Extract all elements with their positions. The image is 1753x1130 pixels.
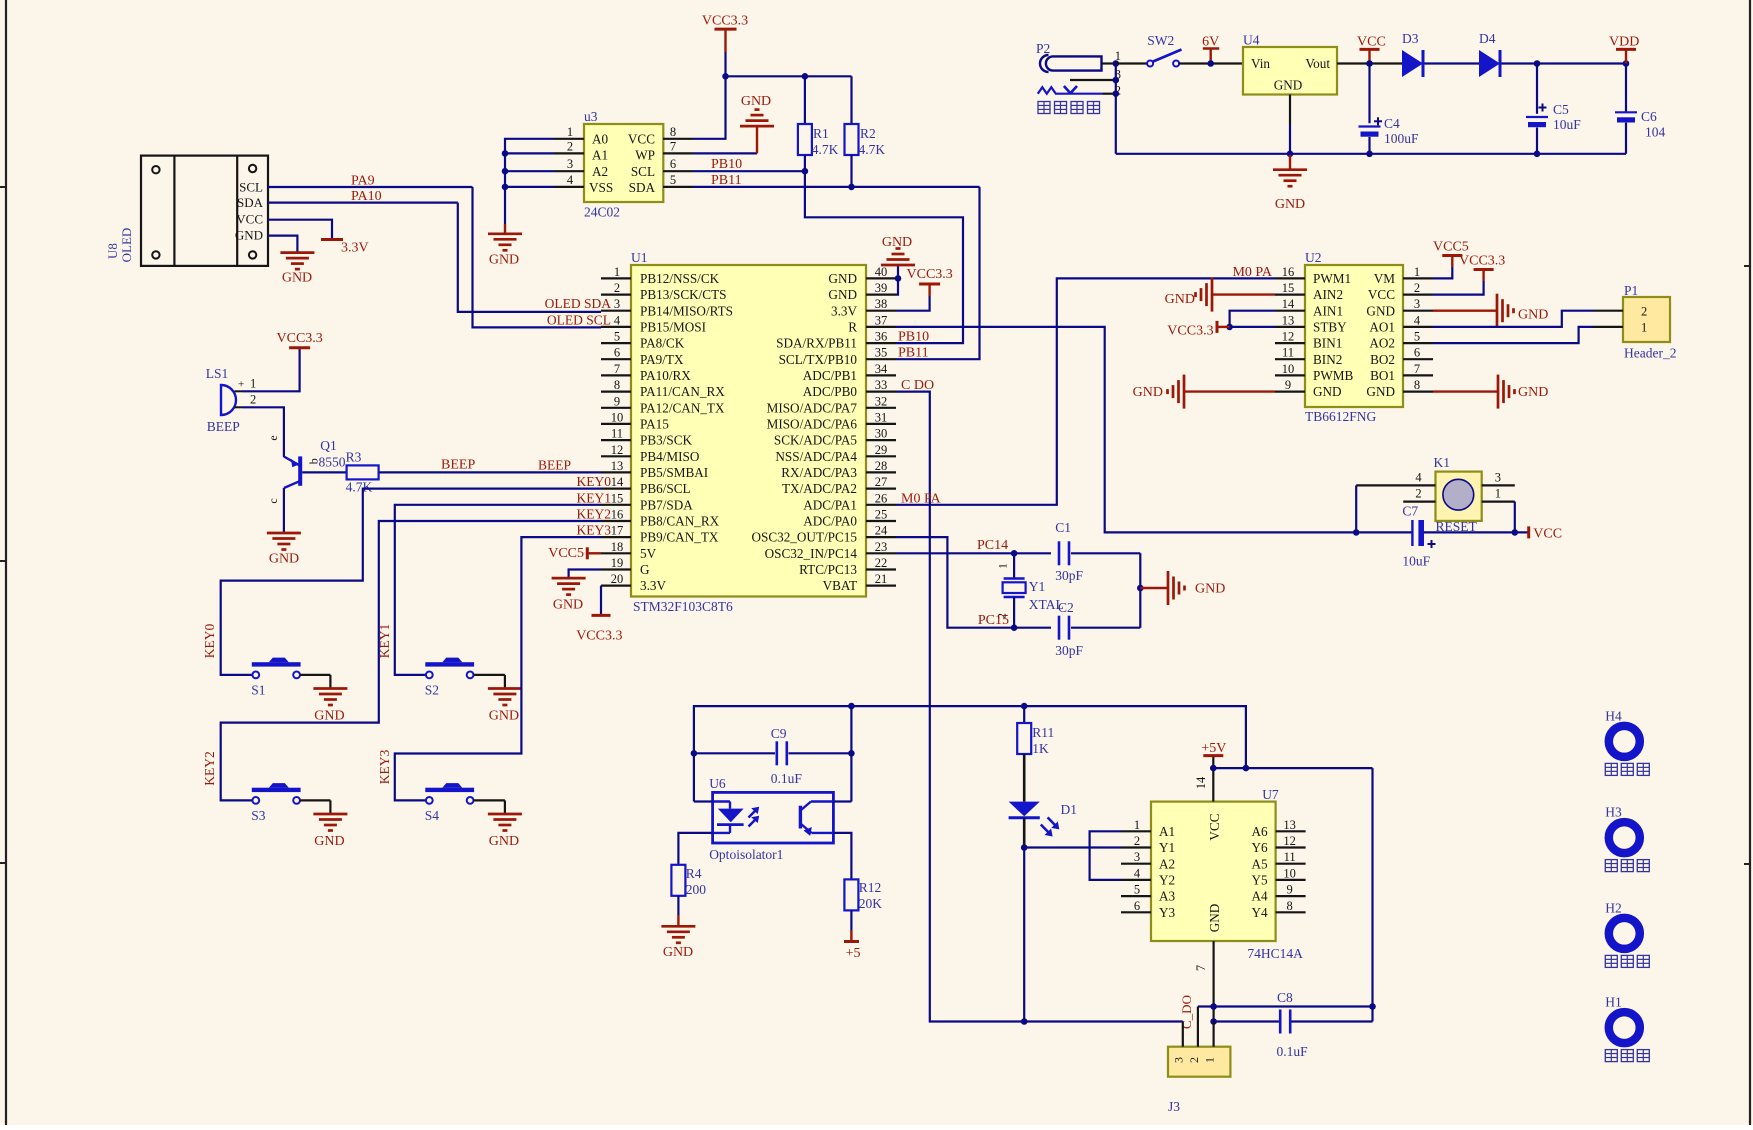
net label KEY2 (at U1): [577, 507, 612, 522]
label 24C02: [584, 205, 620, 220]
buzzer LS1: [221, 377, 256, 416]
label U8 designator (rotated OLED / U8): [105, 228, 134, 263]
wire KEY2 net: [221, 521, 601, 800]
svg-text:C8: C8: [1277, 990, 1293, 1005]
pin 5 u3 SDA: [663, 173, 693, 187]
pin 25 U1: [866, 508, 896, 522]
wire U2 VCC to VCC3.3: [1433, 281, 1484, 295]
switch S3: [252, 783, 301, 804]
label 74HC14A: [1247, 946, 1303, 961]
pin 6 u3 SCL: [663, 157, 693, 171]
wire M0_PA U1 pin26 to U2 pin16: [896, 278, 1275, 504]
svg-text:PB11: PB11: [711, 173, 742, 188]
pin 3 K1: [1482, 470, 1515, 485]
pin 14 U2: [1275, 297, 1305, 311]
svg-text:8: 8: [670, 125, 676, 139]
svg-text:14: 14: [611, 475, 624, 489]
svg-text:15: 15: [611, 491, 624, 505]
net label KEY2 (rotated): [202, 751, 217, 786]
pin 5 U1: [601, 330, 631, 344]
svg-text:4.7K: 4.7K: [859, 142, 886, 157]
svg-text:U6: U6: [709, 776, 726, 791]
svg-text:5: 5: [670, 173, 676, 187]
junction D1 cathode / U7 input: [1021, 844, 1028, 851]
svg-text:GND: GND: [1518, 385, 1548, 400]
wire VCC3.3 to pullups: [726, 76, 852, 124]
label 10uF: [1553, 117, 1581, 132]
ground symbol (U2 pin15): [1165, 278, 1212, 312]
junction C5 on rail: [1534, 151, 1541, 158]
power symbol VCC3.3 (LS1): [277, 331, 323, 348]
junction R1 top: [802, 73, 809, 80]
net label KEY0 (at U1): [577, 474, 612, 489]
svg-text:VCC: VCC: [1357, 35, 1386, 50]
junction crystal GND tap: [1137, 585, 1144, 592]
svg-text:RX/ADC/PA3: RX/ADC/PA3: [781, 465, 857, 480]
svg-text:10: 10: [611, 410, 624, 424]
svg-text:VDD: VDD: [1609, 35, 1639, 50]
svg-text:GND: GND: [314, 708, 344, 723]
svg-text:0.1uF: 0.1uF: [771, 771, 803, 786]
svg-text:WP: WP: [635, 147, 655, 162]
svg-text:1: 1: [250, 377, 256, 391]
resistor R1 4.7K: [798, 124, 839, 171]
pin 36 U1: [866, 330, 896, 344]
pin 1 P1: [1593, 326, 1623, 328]
svg-text:74HC14A: 74HC14A: [1247, 946, 1303, 961]
svg-text:3: 3: [1134, 850, 1140, 864]
capacitor C5 10uF: [1526, 64, 1548, 154]
ground symbol (U2 pin9): [1133, 375, 1184, 409]
svg-text:R1: R1: [813, 126, 829, 141]
svg-text:100uF: 100uF: [1384, 131, 1419, 146]
wire U1 pin40/39 GND: [896, 278, 898, 294]
pin 3 U2: [1403, 297, 1433, 311]
svg-text:30: 30: [875, 427, 888, 441]
label guding kong (fixing hole) H1: [1605, 1050, 1649, 1062]
svg-text:18: 18: [611, 540, 624, 554]
svg-text:D4: D4: [1479, 31, 1496, 46]
regulator U4 body: [1243, 47, 1337, 95]
pin 6 U1: [601, 346, 631, 360]
svg-text:VCC: VCC: [1533, 527, 1562, 542]
svg-text:12: 12: [611, 443, 624, 457]
label U2: [1305, 250, 1322, 265]
diode D4: [1479, 50, 1500, 77]
label S2: [425, 682, 439, 697]
svg-text:Header_2: Header_2: [1624, 346, 1676, 361]
svg-text:+5: +5: [846, 946, 861, 961]
svg-text:AO1: AO1: [1369, 320, 1395, 335]
wire Q1 collector to GND: [283, 488, 285, 533]
ground symbol (S1): [313, 689, 347, 724]
svg-text:PB15/MOSI: PB15/MOSI: [640, 320, 706, 335]
svg-text:4.7K: 4.7K: [346, 480, 373, 495]
junction P2 pin2: [1113, 90, 1120, 97]
svg-text:U2: U2: [1305, 250, 1322, 265]
junction +5 rail top wire: [1243, 765, 1250, 772]
label guding kong (fixing hole) H3: [1605, 860, 1649, 872]
svg-text:1: 1: [614, 265, 620, 279]
pin 14 U1: [601, 475, 631, 489]
wire PC15 U1 pin24: [896, 537, 1051, 628]
svg-text:PC15: PC15: [978, 613, 1009, 628]
label H3: [1605, 805, 1622, 820]
junction PB10/R1: [802, 168, 809, 175]
wire +5 top net: [694, 706, 1246, 801]
svg-text:A3: A3: [1159, 889, 1176, 904]
pin 9 U1: [601, 394, 631, 408]
svg-text:19: 19: [611, 556, 624, 570]
mounting hole H3: [1609, 822, 1640, 853]
junction P2 pin3: [1113, 77, 1120, 84]
label C9: [771, 726, 787, 741]
wire KEY0 net: [221, 489, 601, 675]
svg-text:A1: A1: [592, 147, 608, 162]
wire U7 pin1-pin4 tie: [1090, 831, 1121, 880]
svg-text:PA9: PA9: [351, 174, 375, 189]
svg-text:PWM1: PWM1: [1313, 271, 1351, 286]
label STM32F103C8T6: [633, 599, 733, 614]
svg-text:BEEP: BEEP: [538, 457, 571, 472]
wire U4 Vout to VCC node: [1337, 62, 1402, 64]
svg-text:4.7K: 4.7K: [812, 142, 839, 157]
svg-text:R4: R4: [686, 866, 702, 881]
wire U2 VM to VCC5: [1433, 267, 1452, 278]
svg-text:VSS: VSS: [589, 180, 613, 195]
resistor R3 4.7K: [346, 450, 379, 495]
pin 33 U1: [866, 378, 896, 392]
label Header_2: [1624, 346, 1676, 361]
svg-text:23: 23: [875, 540, 888, 554]
power symbol VCC5 (U2): [1433, 240, 1469, 268]
svg-text:H2: H2: [1605, 900, 1622, 915]
svg-text:7: 7: [670, 139, 676, 153]
pin 2 J3: [1197, 1007, 1199, 1047]
svg-text:GND: GND: [1366, 303, 1395, 318]
pin 39 U1: [866, 281, 896, 295]
net label C_DO (U1 pin33): [901, 378, 934, 393]
svg-text:4: 4: [614, 313, 621, 327]
svg-text:GND: GND: [489, 834, 519, 849]
svg-text:R2: R2: [860, 126, 876, 141]
power symbol VCC5 (U1 pin18): [548, 546, 601, 561]
svg-text:10uF: 10uF: [1402, 554, 1430, 569]
power symbol VCC3.3 (U1 pin20): [576, 615, 622, 643]
ground symbol (U2 pin3): [1497, 294, 1548, 328]
svg-text:BIN2: BIN2: [1313, 352, 1342, 367]
label P1: [1624, 283, 1638, 298]
svg-text:22: 22: [875, 556, 888, 570]
svg-text:SCK/ADC/PA5: SCK/ADC/PA5: [774, 433, 857, 448]
wire U2 pin9 GND: [1184, 390, 1275, 392]
svg-text:u3: u3: [584, 109, 598, 124]
label 8550: [319, 455, 346, 470]
wire to crystal ground: [1140, 587, 1168, 589]
wire C8 top line to J3 pin2: [1198, 1005, 1373, 1007]
wire LS1 pin2 to Q1 emitter: [242, 407, 284, 457]
net label M0 PA (U2): [1232, 265, 1272, 280]
svg-text:MISO/ADC/PA6: MISO/ADC/PA6: [767, 417, 858, 432]
wire U2 AO2 to P1 pin1: [1433, 327, 1593, 343]
svg-text:35: 35: [875, 346, 888, 360]
svg-text:GND: GND: [1207, 904, 1222, 933]
pin 8 u3 VCC: [663, 125, 693, 139]
svg-text:1: 1: [567, 125, 573, 139]
svg-text:PB11: PB11: [898, 346, 929, 361]
wire U6 collector up: [850, 706, 852, 801]
label C1: [1055, 520, 1071, 535]
label C6: [1641, 109, 1657, 124]
svg-text:2: 2: [1134, 834, 1140, 848]
mounting hole H4: [1609, 726, 1640, 757]
pin 37 U1: [866, 313, 896, 327]
pin 2 u3 A1: [554, 139, 584, 153]
svg-text:GND: GND: [1366, 384, 1395, 399]
svg-text:PA11/CAN_RX: PA11/CAN_RX: [640, 384, 725, 399]
svg-text:C5: C5: [1553, 102, 1569, 117]
svg-text:OLED SCL: OLED SCL: [547, 312, 611, 327]
pin 22 U1: [866, 556, 896, 570]
junction C4 on rail: [1366, 151, 1373, 158]
svg-text:38: 38: [875, 297, 888, 311]
label H4: [1605, 708, 1622, 723]
pin 1 u3 A0: [554, 125, 584, 139]
svg-text:Y3: Y3: [1159, 905, 1176, 920]
label SW2: [1147, 33, 1174, 48]
wire S2 to ground: [474, 675, 505, 689]
svg-text:200: 200: [686, 882, 707, 897]
label S3: [251, 808, 266, 823]
svg-text:2: 2: [1641, 305, 1647, 319]
svg-text:PC14: PC14: [977, 538, 1008, 553]
pin 10 U2: [1275, 362, 1305, 376]
svg-text:GND: GND: [1133, 385, 1163, 400]
svg-text:KEY0: KEY0: [202, 624, 217, 659]
svg-text:6: 6: [1414, 346, 1420, 360]
svg-text:SCL/TX/PB10: SCL/TX/PB10: [779, 352, 858, 367]
svg-text:GND: GND: [269, 552, 299, 567]
svg-text:U7: U7: [1262, 787, 1279, 802]
svg-text:KEY2: KEY2: [577, 507, 612, 522]
svg-text:PB8/CAN_RX: PB8/CAN_RX: [640, 514, 720, 529]
svg-text:2: 2: [1187, 1057, 1201, 1063]
svg-text:9: 9: [1285, 378, 1291, 392]
svg-text:4: 4: [1414, 313, 1421, 327]
junction u3 pin3: [502, 168, 509, 175]
pin 2 U2: [1403, 281, 1433, 295]
net label PC14: [977, 538, 1008, 553]
svg-text:C2: C2: [1058, 600, 1074, 615]
wire D3 to D4: [1425, 62, 1480, 64]
svg-text:A2: A2: [1159, 856, 1175, 871]
label dianyuan jiekou (power port): [1038, 102, 1100, 114]
svg-text:GND: GND: [314, 834, 344, 849]
pin 2 K1: [1403, 487, 1435, 502]
svg-text:PB4/MISO: PB4/MISO: [640, 449, 699, 464]
junction U7 pin14 / +5 rail: [1210, 765, 1217, 772]
svg-text:c: c: [266, 498, 280, 503]
wire S1 to ground: [300, 675, 330, 689]
pin 9 U7: [1276, 883, 1306, 897]
optoisolator U6 body: [713, 792, 834, 843]
pin 10 U7: [1276, 866, 1306, 880]
svg-text:104: 104: [1645, 125, 1666, 140]
svg-text:1K: 1K: [1032, 741, 1049, 756]
svg-text:BIN1: BIN1: [1313, 336, 1342, 351]
svg-text:Y4: Y4: [1251, 905, 1268, 920]
label guding kong (fixing hole) H4: [1605, 763, 1649, 775]
svg-text:VCC5: VCC5: [1433, 240, 1469, 255]
power symbol VCC (top): [1357, 35, 1386, 64]
power symbol VCC (K1): [1529, 526, 1562, 541]
ground symbol (near U1 pin40): [881, 235, 915, 278]
svg-text:P1: P1: [1624, 283, 1638, 298]
ground symbol (R4): [661, 926, 695, 960]
switch S2: [425, 658, 474, 679]
svg-text:24C02: 24C02: [584, 205, 620, 220]
svg-text:U1: U1: [631, 250, 648, 265]
resistor R11 1K: [1017, 706, 1054, 756]
net label KEY1 (rotated): [377, 624, 392, 659]
svg-text:S3: S3: [251, 808, 266, 823]
wire U2 AIN2 to GND: [1212, 293, 1275, 295]
ground symbol (U4): [1273, 154, 1307, 212]
junction U4 GND on rail: [1287, 151, 1294, 158]
wire u3 WP to GND: [693, 126, 757, 153]
ground symbol (U1 pin19): [552, 578, 586, 612]
junction K1 pin4: [1353, 529, 1360, 536]
svg-text:20: 20: [611, 572, 624, 586]
net label OLED SCL: [547, 312, 611, 327]
label S1: [251, 682, 265, 697]
pin 4 K1: [1356, 470, 1435, 485]
svg-text:GND: GND: [741, 94, 771, 109]
mounting hole H1: [1609, 1012, 1640, 1043]
svg-text:GND: GND: [553, 598, 583, 613]
pin 34 U1: [866, 362, 896, 376]
svg-text:PA10/RX: PA10/RX: [640, 368, 691, 383]
svg-text:1: 1: [1134, 818, 1140, 832]
svg-text:K1: K1: [1434, 455, 1451, 470]
pin 13 U2: [1275, 313, 1305, 327]
wire SW2 to U4 Vin: [1179, 62, 1243, 64]
svg-text:VM: VM: [1374, 271, 1396, 286]
pin 38 U1: [866, 297, 896, 311]
svg-text:GND: GND: [828, 287, 857, 302]
ground symbol (OLED): [280, 253, 314, 286]
wire U6 cathode to R4: [678, 833, 712, 865]
label 10uF (C7): [1402, 554, 1430, 569]
svg-text:C_DO: C_DO: [1179, 995, 1194, 1029]
junction U7 pin7 / C8: [1210, 1018, 1217, 1025]
label D3: [1402, 31, 1419, 46]
IC U7 74HC14A body: [1151, 802, 1276, 941]
net label PA10: [351, 189, 382, 204]
pin 2 U7: [1121, 834, 1151, 848]
power symbol VCC3.3 (U1 pin38): [907, 267, 953, 296]
svg-text:ADC/PA0: ADC/PA0: [803, 514, 857, 529]
svg-text:GND: GND: [489, 708, 519, 723]
junction u3 pin2: [502, 150, 509, 157]
pin 6 U2: [1403, 346, 1433, 360]
junction top wire / U6 right: [848, 703, 855, 710]
svg-text:SDA: SDA: [237, 195, 264, 210]
svg-text:37: 37: [875, 313, 888, 327]
label 0.1uF (C8): [1277, 1044, 1309, 1059]
wire crystal caps common: [1139, 553, 1141, 627]
svg-text:+5V: +5V: [1201, 741, 1226, 756]
switch SW2: [1147, 50, 1181, 67]
svg-text:GND: GND: [1165, 292, 1195, 307]
net label PB11 (u3): [711, 173, 742, 188]
wire S4 to ground: [474, 800, 505, 814]
junction PC15/crystal bottom: [1011, 624, 1018, 631]
label C4: [1384, 116, 1400, 131]
connector J3 body: [1168, 1047, 1230, 1077]
svg-text:29: 29: [875, 443, 888, 457]
capacitor C9 0.1uF: [694, 741, 852, 765]
pin 9 U2: [1275, 378, 1305, 392]
svg-text:10: 10: [1282, 362, 1295, 376]
svg-text:AIN2: AIN2: [1313, 287, 1343, 302]
svg-text:PB9/CAN_TX: PB9/CAN_TX: [640, 530, 719, 545]
pin 17 U1: [601, 524, 631, 538]
svg-text:VCC3.3: VCC3.3: [576, 629, 622, 644]
label D1: [1061, 802, 1078, 817]
svg-text:8550: 8550: [319, 455, 346, 470]
pin 20 U1: [601, 572, 631, 586]
svg-text:36: 36: [875, 330, 888, 344]
pin 18 U1: [601, 540, 631, 554]
connector P2 power jack: [1040, 49, 1121, 98]
wire LS1 pin1 to VCC3.3: [242, 348, 300, 392]
label U6: [709, 776, 726, 791]
label S4: [425, 808, 440, 823]
ground symbol (U2 pin8): [1498, 375, 1548, 409]
label K1: [1434, 455, 1451, 470]
switch S4: [425, 783, 474, 804]
diode D3: [1402, 50, 1423, 77]
label guding kong (fixing hole) H2: [1605, 955, 1649, 967]
svg-text:VCC: VCC: [1368, 287, 1395, 302]
net label BEEP (at U1): [538, 457, 571, 472]
pin 16 U2: [1275, 265, 1305, 279]
svg-text:24: 24: [875, 524, 888, 538]
svg-text:VCC3.3: VCC3.3: [1167, 324, 1213, 339]
pin 16 U1: [601, 508, 631, 522]
ground symbol (S4): [488, 814, 522, 849]
svg-text:2: 2: [1414, 281, 1420, 295]
svg-text:KEY3: KEY3: [377, 750, 392, 785]
svg-text:C9: C9: [771, 726, 787, 741]
wire P2 to SW2: [1116, 62, 1147, 64]
label C7: [1402, 504, 1418, 519]
pin 27 U1: [866, 475, 896, 489]
svg-text:6: 6: [1134, 899, 1140, 913]
label P2: [1036, 41, 1050, 56]
pin 2 P1: [1593, 310, 1623, 312]
net label M0 PA (U1 pin26): [901, 491, 941, 506]
svg-text:Y5: Y5: [1251, 873, 1268, 888]
pin 4 U1: [601, 313, 631, 327]
svg-text:RTC/PC13: RTC/PC13: [799, 562, 857, 577]
svg-text:GND: GND: [882, 235, 912, 250]
pin 8 U1: [601, 378, 631, 392]
svg-text:TX/ADC/PA2: TX/ADC/PA2: [782, 481, 857, 496]
wire +5 rail to C8: [1213, 768, 1372, 1006]
label D4: [1479, 31, 1496, 46]
